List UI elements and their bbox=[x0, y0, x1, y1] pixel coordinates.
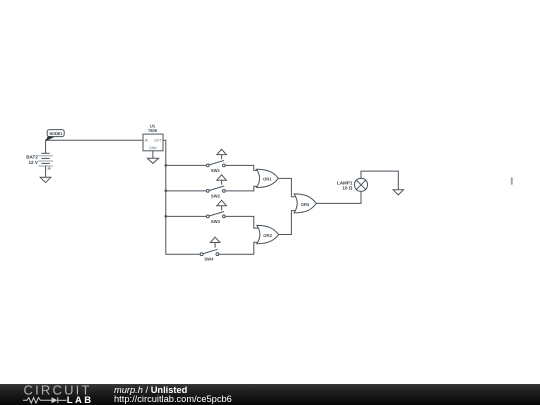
voltage regulator U1 7805 bbox=[143, 124, 163, 151]
junction bus/SW2 bbox=[164, 190, 167, 193]
wire battery negative lead bbox=[45, 166, 47, 177]
svg-text:OUT: OUT bbox=[154, 139, 162, 143]
wire NODE1 to U1 IN bbox=[46, 139, 143, 141]
wire lamp to ground bbox=[361, 171, 398, 190]
svg-text:OR3: OR3 bbox=[301, 202, 310, 207]
switch SW1 bbox=[206, 149, 226, 173]
wire bus to SW2 bbox=[166, 190, 207, 192]
wire U1 OUT to distribution bus bbox=[163, 140, 200, 254]
or-gate OR3 bbox=[294, 194, 316, 213]
wire SW3 to OR2 input A bbox=[225, 216, 258, 228]
switch SW3 bbox=[206, 200, 226, 224]
cursor tick at right edge bbox=[511, 177, 513, 185]
svg-text:16 Ω: 16 Ω bbox=[342, 186, 352, 191]
wire OR2 output to OR3 input B bbox=[279, 211, 297, 235]
switch SW4 bbox=[200, 237, 220, 261]
ground (lamp return) bbox=[393, 190, 403, 195]
svg-text:OR1: OR1 bbox=[263, 177, 272, 182]
svg-text:IN: IN bbox=[145, 139, 149, 143]
lamp LAMP1 16 ohm bbox=[337, 178, 368, 191]
battery BAT2 12 V bbox=[26, 153, 52, 169]
ground (U1) bbox=[147, 158, 158, 163]
svg-text:SW3: SW3 bbox=[211, 219, 221, 224]
junction bus/SW3 bbox=[164, 215, 167, 218]
svg-text:12 V: 12 V bbox=[28, 160, 38, 165]
wire battery positive lead bbox=[45, 140, 47, 153]
wire OR1 output to OR3 input A bbox=[278, 178, 296, 196]
svg-text:GND: GND bbox=[149, 146, 157, 150]
wire SW1 to OR1 input A bbox=[225, 165, 258, 170]
svg-text:SW2: SW2 bbox=[211, 194, 221, 199]
ground (battery) bbox=[40, 177, 51, 182]
wire bus to SW1 bbox=[166, 164, 207, 166]
svg-text:LAB: LAB bbox=[67, 395, 94, 405]
schematic title text bbox=[114, 386, 232, 404]
CircuitLab logo bbox=[0, 384, 100, 405]
wire OR3 output to lamp bbox=[316, 192, 361, 204]
or-gate OR1 bbox=[257, 169, 279, 187]
or-gate OR2 bbox=[257, 225, 279, 243]
node NODE1 flag bbox=[45, 130, 64, 142]
footer bar bbox=[0, 384, 540, 405]
wire bus to SW3 bbox=[166, 215, 207, 217]
wire SW2 to OR1 input B bbox=[225, 186, 258, 191]
svg-text:SW4: SW4 bbox=[204, 257, 214, 262]
switch SW2 bbox=[206, 175, 226, 199]
junction bus/SW1 bbox=[164, 164, 167, 167]
wire U1 GND pin bbox=[152, 151, 154, 159]
svg-text:NODE1: NODE1 bbox=[50, 131, 64, 136]
svg-text:OR2: OR2 bbox=[263, 233, 272, 238]
svg-text:7805: 7805 bbox=[148, 128, 158, 133]
svg-text:SW1: SW1 bbox=[211, 168, 221, 173]
wire SW4 to OR2 input B bbox=[219, 242, 259, 254]
